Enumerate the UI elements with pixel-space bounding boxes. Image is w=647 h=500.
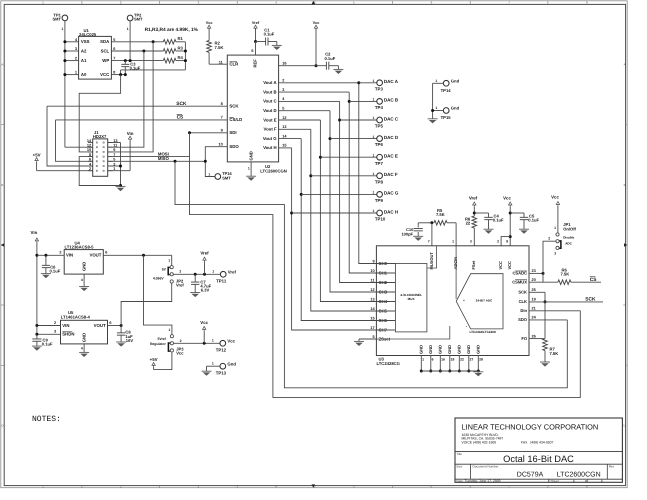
wire Vout F pin 13 to drop column [279,125,311,129]
ground for TP13 [202,370,212,372]
svg-text:TP3: TP3 [375,86,384,91]
svg-text:1: 1 [435,106,437,110]
svg-text:LT1461ACS8-4: LT1461ACS8-4 [61,315,91,320]
svg-text:0.1uF: 0.1uF [493,218,504,223]
svg-text:TP15: TP15 [441,115,452,120]
svg-text:7.5K: 7.5K [436,212,445,217]
svg-text:SMT: SMT [52,17,61,22]
IC U4 LT1236ACS8-5 [64,241,103,275]
svg-text:DAC E: DAC E [384,154,398,159]
test point TP9 DAC G [301,191,399,203]
svg-text:13: 13 [370,298,374,302]
wire Vout C pin 4 to drop column [279,97,340,101]
power Vin at J1 [108,131,134,171]
capacitor C2 to ground [325,52,339,70]
test point TP4 DAC B [349,98,399,110]
U2 right pin names Vout A-H [263,80,277,150]
power +5V to J1 pin 2 [33,152,93,170]
svg-text:7.5K: 7.5K [550,351,559,356]
svg-text:DAC A: DAC A [384,79,399,84]
test point TP1 [52,12,67,31]
svg-text:FO: FO [521,336,528,341]
svg-text:0.1uF: 0.1uF [130,66,141,71]
svg-text:VOICE (408) 432-1900: VOICE (408) 432-1900 [462,441,497,445]
svg-text:HD2X7: HD2X7 [93,134,107,139]
J1 right pin numbers [108,139,118,171]
svg-text:16: 16 [441,358,445,362]
svg-text:1: 1 [75,71,78,75]
svg-text:28: 28 [479,358,483,362]
svg-text:0.1uF: 0.1uF [325,56,336,61]
svg-text:2: 2 [59,251,61,255]
U1 left pin wires with pin numbers [65,38,79,75]
svg-text:NOTES:: NOTES: [32,415,61,424]
svg-text:1: 1 [373,172,375,176]
svg-text:Gnd: Gnd [227,361,236,366]
svg-text:SCK: SCK [518,290,527,295]
power Vin for regulators [31,230,39,325]
svg-text:TP4: TP4 [375,105,384,110]
svg-text:DAC G: DAC G [384,191,399,196]
wire CSMUX pin 20 through R6 [529,278,558,282]
svg-text:A: A [624,63,626,67]
power Vcc at ADC VCC [503,195,512,246]
wire drop column for DAC G down to CH6 [300,139,377,321]
svg-text:6: 6 [109,321,111,325]
svg-text:1: 1 [168,258,170,262]
svg-text:6: 6 [251,49,253,53]
svg-text:A: A [1,63,3,67]
ground for R7 [540,361,550,363]
wire MISO J1 pin 5 to SDO net [108,160,207,163]
test point TP10 DAC H [292,209,399,221]
svg-text:SDO: SDO [229,144,239,149]
svg-text:TP7: TP7 [375,161,384,166]
svg-text:Vout E: Vout E [263,117,276,122]
svg-text:22: 22 [460,358,464,362]
svg-text:6: 6 [113,47,115,51]
svg-text:1: 1 [373,191,375,195]
svg-text:MISO: MISO [158,156,170,161]
test point TP3 DAC A [359,79,399,91]
jumper JP3 Vcc select [150,328,184,356]
svg-text:VIN: VIN [62,323,69,328]
svg-text:LTC2600CGN: LTC2600CGN [557,471,601,478]
test point TP14 Gnd [433,78,460,93]
svg-text:Vout A: Vout A [263,80,276,85]
svg-text:7: 7 [113,57,115,61]
wire CSADC pin 23 [529,269,545,275]
svg-text:0.1uF: 0.1uF [50,269,61,274]
svg-text:Gnd: Gnd [451,78,460,83]
svg-text:2: 2 [497,239,499,243]
title block address [462,433,554,445]
U3 top pin names rotated [429,252,512,270]
svg-text:CLR: CLR [229,62,239,67]
svg-text:Vcc: Vcc [206,21,213,25]
svg-text:Disable: Disable [563,236,574,240]
svg-text:TP5: TP5 [375,124,384,129]
svg-text:SCL: SCL [101,48,110,53]
ground for TP14 TP15 [428,118,438,120]
svg-text:WP: WP [102,58,109,63]
title block title field [456,452,574,464]
wire drop column for DAC A down to CH0 [357,81,376,263]
svg-text:8: 8 [113,71,116,75]
svg-text:DAC F: DAC F [384,172,398,177]
wire into JP2 pin 1 [171,255,173,265]
svg-text:A0: A0 [81,72,87,77]
svg-text:4: 4 [81,346,83,350]
svg-text:+5V: +5V [150,357,158,362]
svg-text:CS/LD: CS/LD [229,117,242,122]
svg-text:TP6: TP6 [375,142,384,147]
wire REF pin 6 [251,42,255,56]
svg-text:TP12: TP12 [216,348,227,353]
wire Vin to U4 VIN pin 2 [37,251,64,257]
svg-text:10: 10 [370,269,374,273]
svg-text:1: 1 [573,479,575,483]
U3 right pin names [512,271,528,341]
wire MISO branch to ADC SDO [175,161,567,387]
svg-text:GND: GND [81,333,86,342]
svg-text:5V: 5V [162,268,167,272]
svg-text:GND: GND [428,345,433,354]
wire JP1 pin 2 to CS net [543,241,556,282]
svg-text:R1,R3,R4 are 4.99K, 1%: R1,R3,R4 are 4.99K, 1% [145,27,199,33]
svg-text:3: 3 [470,239,472,243]
title block document number [456,465,614,479]
title block outline [455,418,622,482]
U3 designator [377,356,400,366]
svg-text:Vref: Vref [252,21,260,25]
wire Vin to U5 VIN pin 2 [35,321,60,327]
svg-text:Vcc: Vcc [313,21,320,25]
capacitor C8 1uF [117,326,133,343]
svg-text:Vout B: Vout B [263,89,277,94]
resistor R2 with Vcc arrow [206,21,224,64]
svg-text:Regulator: Regulator [150,342,167,346]
wire SDO to TP16 [205,147,227,177]
svg-text:2: 2 [75,57,77,61]
test point TP7 DAC E [320,153,398,165]
svg-text:Vref: Vref [469,195,478,200]
svg-text:1: 1 [212,270,214,274]
svg-text:2: 2 [54,321,56,325]
svg-text:9: 9 [221,129,223,133]
ground for C1 [272,44,282,46]
wire MOSI branch to ADC Din [190,133,581,398]
wire JP2 pin 2 to Vref node and TP11 [173,273,220,275]
svg-text:1: 1 [373,98,375,102]
jumper JP1 ADC enable [548,195,576,256]
svg-text:R3: R3 [178,45,184,50]
U3 bottom GND rotated pin names [419,345,481,354]
svg-text:VOUT: VOUT [94,323,106,328]
capacitor C1 to ground [256,28,277,46]
U5 GND pin to ground [81,344,84,353]
svg-text:TP10: TP10 [375,217,386,222]
svg-text:MUXOUT: MUXOUT [429,252,434,270]
wire drop column for DAC F down to CH5 [309,129,376,311]
svg-text:Vcc: Vcc [200,320,208,325]
ground for C6 [41,273,51,275]
svg-text:Vin: Vin [127,131,134,136]
wire ZSset to ground [359,326,450,341]
svg-text:16V: 16V [126,338,134,343]
svg-text:1: 1 [373,79,375,83]
svg-text:3: 3 [282,88,284,92]
wire U5 VOUT pin 6 [108,321,123,327]
svg-text:TP11: TP11 [216,279,227,284]
svg-text:DAC D: DAC D [384,135,399,140]
wire MUXOUT node [418,221,433,246]
svg-text:0.1uF: 0.1uF [264,32,275,37]
svg-text:7.5K: 7.5K [215,45,224,50]
capacitor C10 100pF [401,223,422,237]
resistor R5 7.5K [434,208,456,225]
svg-text:1: 1 [422,358,424,362]
ground for C5 [519,228,529,230]
svg-text:FSet: FSet [471,260,476,269]
svg-text:CSADC: CSADC [512,271,527,276]
ground for U2 [246,175,256,177]
ground for C7 [190,292,200,294]
svg-text:Vcc: Vcc [503,195,511,200]
svg-text:2: 2 [179,270,181,274]
wire MOSI J1 pin 7 to SDI [108,156,190,158]
svg-text:Vref: Vref [228,269,237,274]
svg-text:17: 17 [370,326,374,330]
svg-text:SDA: SDA [100,39,109,44]
capacitor C4 0.1uF [474,213,504,229]
resistor R8 22 to FSet [465,216,477,246]
svg-text:Sheet: Sheet [551,479,559,483]
capacitor C5 0.1uF [510,213,539,229]
svg-text:Vout C: Vout C [263,99,277,104]
U2 designator [260,164,286,173]
power Vcc arrow at TP12 [200,320,208,343]
ground for U5 [79,351,89,353]
svg-text:CS: CS [590,277,597,283]
ground for C9 [32,345,42,347]
J1 left pin numbers [87,139,93,171]
svg-text:5: 5 [282,107,285,111]
U4 GND pin to ground [81,274,84,286]
svg-text:LTC2404/LTC2408: LTC2404/LTC2408 [470,330,496,334]
svg-text:25: 25 [532,288,537,292]
wire drop column for DAC B down to CH1 [348,92,377,273]
wire Vout H pin 15 to drop column [279,144,292,148]
svg-text:1: 1 [373,116,375,120]
svg-text:DAC H: DAC H [384,209,398,214]
svg-text:10: 10 [87,148,91,152]
svg-text:DAC C: DAC C [384,116,399,121]
resistor R3 [163,45,185,53]
svg-text:6: 6 [105,251,107,255]
svg-text:24-BIT ADC: 24-BIT ADC [476,299,493,303]
svg-text:GND: GND [81,262,86,271]
svg-text:10: 10 [219,143,223,147]
wire CS down to J1 pin 6 [56,120,93,161]
wire TP1 to ground bus [64,21,66,42]
capacitor C7 4.7uF [191,274,212,292]
svg-text:1: 1 [208,172,210,176]
wire SDI row [188,129,227,135]
wire SCL drop to J1 pin 11 [108,51,144,147]
test point TP13 Gnd [207,361,237,375]
svg-text:2: 2 [282,79,284,83]
svg-text:-: - [466,324,468,329]
power Vcc at U2 VCC [313,21,320,67]
svg-text:18: 18 [451,358,455,362]
svg-text:VIN: VIN [66,253,73,258]
svg-text:SCK: SCK [229,104,239,109]
test point TP2 [127,13,143,32]
ground for C2 [333,68,343,70]
wire SDA row [111,38,163,43]
svg-text:GND: GND [476,345,481,354]
IC U1 24LC025 [79,28,112,79]
svg-text:GND: GND [419,345,424,354]
power Vref at FSet [469,195,478,216]
svg-text:+5V: +5V [33,152,41,157]
ground for C8 [116,341,126,343]
svg-text:6.3V: 6.3V [201,287,210,292]
wire J1 pin 8 to ground [79,157,120,186]
svg-text:DAC B: DAC B [384,98,399,103]
svg-text:GND: GND [438,345,443,354]
wire SCK down to J1 pin 4 [47,106,93,166]
test point TP11 Vref [212,269,236,283]
test point TP12 Vcc [212,338,236,352]
svg-text:7: 7 [221,116,223,120]
svg-text:22: 22 [466,221,471,226]
capacitor C6 [42,255,61,273]
svg-text:A2: A2 [81,48,87,53]
wire VCC net drop to J1 pin 10 [79,75,120,152]
svg-text:4.096V: 4.096V [153,277,164,281]
svg-text:4: 4 [282,97,285,101]
svg-text:SMT: SMT [222,176,231,181]
svg-text:Vcc: Vcc [227,338,235,343]
jumper JP2 Vref select [153,258,185,287]
U3 inner mux block [395,246,436,332]
svg-text:2: 2 [180,339,182,343]
zone row ticks and letters [1,63,627,428]
svg-text:SCK: SCK [176,101,187,107]
svg-text:Vref: Vref [176,283,184,288]
svg-text:27: 27 [470,358,474,362]
U2 GND pin to ground [248,162,251,176]
svg-text:1: 1 [554,226,556,230]
svg-text:3: 3 [75,47,77,51]
svg-text:LINEAR TECHNOLOGY CORPORATION: LINEAR TECHNOLOGY CORPORATION [462,423,599,432]
svg-text:SCK: SCK [585,297,596,303]
power +5V to JP3 pin 3 [150,352,172,370]
ground for C10 [413,235,423,237]
wire SDA drop to J1 pin 9 [108,42,153,152]
wire Vout E pin 12 to drop column [279,116,321,120]
svg-text:1: 1 [169,328,171,332]
svg-text:Gnd: Gnd [451,106,460,111]
svg-text:15: 15 [282,144,287,148]
wire J1 ground pins 13 and 3 [108,143,122,188]
svg-text:Vout F: Vout F [264,127,277,132]
resistor R1 [163,36,185,44]
svg-text:5: 5 [113,38,116,42]
svg-text:20: 20 [532,278,536,282]
ground bus along TP1 with junctions [63,40,66,147]
svg-text:TP13: TP13 [216,370,227,375]
svg-text:8: 8 [221,102,224,106]
svg-text:B: B [1,183,3,187]
svg-text:Date:: Date: [456,479,464,483]
wire SCL row [111,47,163,52]
svg-text:CLK: CLK [519,299,527,304]
svg-text:14: 14 [282,134,287,138]
svg-text:Title: Title [456,452,462,456]
svg-text:6: 6 [89,158,91,162]
svg-text:VCC: VCC [498,261,503,270]
wire Vout D pin 5 to drop column [279,107,330,111]
svg-text:Vref: Vref [200,251,209,256]
resistor R7 7.5K pulldown [543,302,558,362]
wire SHDN pin 3 tie [35,326,60,336]
svg-text:ADC: ADC [565,242,572,246]
svg-text:TP14: TP14 [441,88,452,93]
svg-text:TP9: TP9 [375,198,384,203]
svg-text:1: 1 [127,27,129,31]
svg-text:VCC: VCC [100,72,109,77]
svg-text:LT1236ACS8-5: LT1236ACS8-5 [65,245,95,250]
svg-text:LTC2428CG: LTC2428CG [377,361,400,366]
svg-text:B: B [624,183,626,187]
wire CS row to U2 [56,116,228,120]
svg-text:100pF: 100pF [401,231,413,236]
capacitor C9 [32,334,53,346]
svg-text:8: 8 [506,239,508,243]
svg-text:SMT: SMT [134,17,143,22]
U2 left pin names [229,62,242,149]
wire R2 to CLR pin [209,60,227,64]
wire ground bus to J1 pin 12 [65,146,93,148]
svg-text:VSS: VSS [81,39,90,44]
U3 pin numbers left [370,260,375,331]
svg-text:Vout H: Vout H [263,145,277,150]
svg-text:1: 1 [212,339,214,343]
svg-text:GND: GND [466,345,471,354]
svg-text:Vcc: Vcc [551,195,559,200]
svg-text:1: 1 [373,153,375,157]
svg-text:ADCIN: ADCIN [453,257,458,270]
wire TP2 to WP net [129,21,131,61]
wire TP14 TP15 to ground [431,83,434,119]
svg-text:12: 12 [282,116,286,120]
wire Vout B pin 3 to drop column [279,88,350,92]
svg-text:0.1uF: 0.1uF [528,218,539,223]
test point TP8 DAC F [311,172,398,184]
svg-text:3: 3 [554,252,556,256]
pull-up common rail to VCC [121,42,187,75]
svg-text:A1: A1 [81,58,87,63]
wire U1 VCC row [111,71,126,76]
svg-text:SDO: SDO [518,317,528,322]
svg-text:Document Number: Document Number [473,465,499,469]
wire FO pin 26 to R7 [529,334,544,338]
svg-text:12: 12 [370,288,374,292]
wire JP3 pin 2 to TP12 [174,342,221,345]
